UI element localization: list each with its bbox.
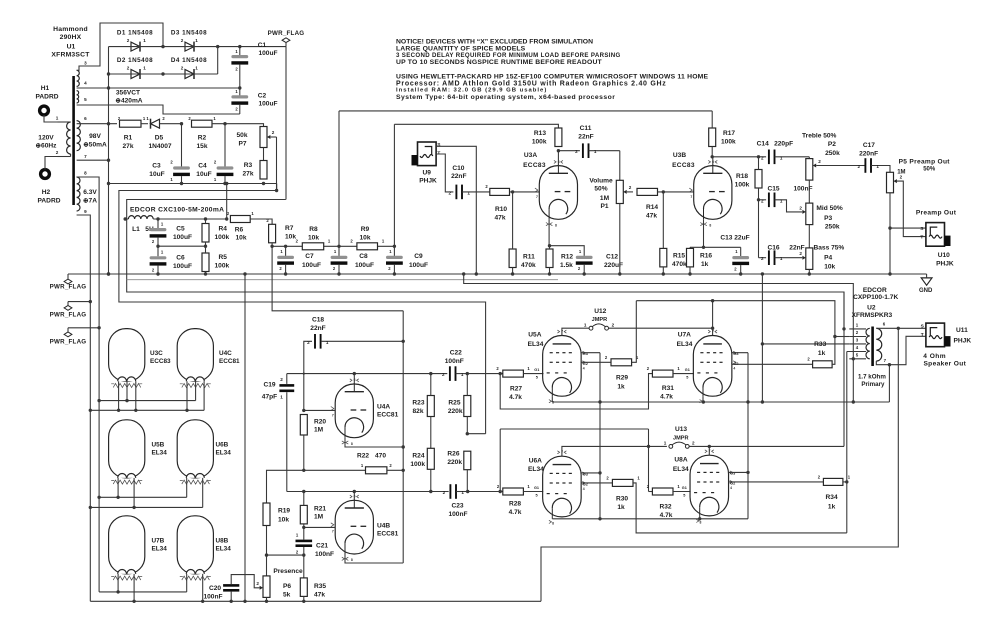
svg-text:R20: R20 — [314, 419, 326, 426]
wire U8A g3 tie — [729, 471, 749, 473]
svg-text:EL34: EL34 — [528, 466, 544, 473]
wire C23 row — [466, 490, 503, 493]
svg-text:2: 2 — [692, 441, 695, 446]
svg-text:100uF: 100uF — [355, 262, 374, 269]
svg-text:C18: C18 — [312, 317, 324, 324]
svg-text:C5: C5 — [176, 226, 185, 233]
svg-text:G3: G3 — [733, 352, 738, 356]
wire U4B plate row — [287, 490, 449, 493]
svg-text:U10: U10 — [938, 252, 950, 259]
wire U7A plate — [711, 299, 714, 336]
wire U3A cathode — [548, 219, 551, 247]
tube U4B — [331, 495, 399, 563]
svg-text:1: 1 — [461, 372, 464, 377]
wire U4B plate — [353, 492, 355, 501]
wire heater bus row3b — [134, 574, 204, 603]
transformer U1 6.3V winding — [77, 171, 88, 214]
svg-text:D2 1N5408: D2 1N5408 — [117, 57, 153, 64]
text system info block — [396, 73, 709, 101]
svg-text:98V: 98V — [89, 133, 101, 140]
svg-text:2: 2 — [56, 150, 59, 155]
svg-text:Installed RAM: 32.0 GB (29.9 G: Installed RAM: 32.0 GB (29.9 GB usable) — [396, 88, 547, 94]
svg-text:2: 2 — [442, 372, 445, 377]
svg-text:Processor: AMD Athlon Gold 315: Processor: AMD Athlon Gold 3150U with Ra… — [396, 80, 667, 87]
wire R14 to U3B grid — [658, 190, 694, 193]
svg-text:4: 4 — [583, 366, 585, 370]
svg-text:2: 2 — [272, 130, 275, 135]
label 98V 50mA — [83, 133, 107, 149]
svg-text:Preamp Out: Preamp Out — [916, 210, 957, 217]
wire P7 wiper feed — [275, 137, 278, 192]
wire splitter top link — [272, 246, 403, 310]
wire cathode ground bus — [462, 272, 855, 402]
svg-text:4: 4 — [730, 486, 732, 490]
wire cathode rail upper — [552, 400, 889, 403]
svg-text:R7: R7 — [285, 225, 294, 232]
wire U3A plate — [557, 149, 560, 166]
svg-text:22nF: 22nF — [310, 325, 325, 332]
svg-text:U3A: U3A — [524, 152, 537, 159]
tube U5A — [528, 330, 588, 405]
power flag 2 — [50, 300, 92, 319]
svg-text:4.7k: 4.7k — [660, 512, 673, 519]
wire U9 sleeve to ground — [436, 146, 476, 274]
wire R28 to U6A grid — [523, 486, 543, 498]
svg-text:U7B: U7B — [152, 537, 165, 544]
svg-text:2: 2 — [900, 175, 903, 180]
transformer U1 secondary 3-4 winding — [77, 61, 88, 87]
tube U4A — [331, 378, 399, 446]
svg-text:C14: C14 — [757, 141, 769, 148]
svg-text:7: 7 — [561, 450, 563, 454]
svg-text:22nF: 22nF — [789, 244, 804, 251]
wire C10 to R10 — [462, 191, 490, 193]
svg-text:H2: H2 — [42, 189, 51, 196]
wire R27 to U5A grid — [523, 368, 543, 380]
wire heater column B — [77, 215, 92, 601]
resistor R1 — [118, 116, 146, 150]
svg-text:R12: R12 — [561, 254, 573, 261]
svg-text:5: 5 — [683, 494, 685, 498]
wire OT secondary pin7 — [876, 358, 891, 402]
svg-text:C8: C8 — [359, 253, 368, 260]
svg-text:100uF: 100uF — [258, 50, 277, 57]
svg-text:27k: 27k — [122, 143, 133, 150]
wire U6A plate — [562, 446, 667, 456]
resistor R8 — [296, 226, 331, 250]
svg-text:470k: 470k — [521, 262, 536, 269]
svg-text:10k: 10k — [235, 235, 246, 242]
svg-text:R24: R24 — [412, 453, 424, 460]
svg-text:2: 2 — [256, 581, 259, 586]
wire B+ drop to C8 — [338, 111, 340, 246]
svg-text:USING HEWLETT-PACKARD HP 15Z-E: USING HEWLETT-PACKARD HP 15Z-EF100 COMPU… — [396, 73, 709, 80]
wire U5A cathode — [551, 396, 553, 402]
capacitor C23 — [443, 484, 468, 518]
svg-text:JMPR: JMPR — [673, 436, 689, 442]
svg-text:R33: R33 — [814, 341, 826, 348]
svg-text:8: 8 — [552, 521, 554, 525]
capacitor C22 — [442, 350, 469, 381]
svg-text:PHJK: PHJK — [954, 337, 972, 344]
tube U6A — [528, 450, 588, 525]
svg-text:4.7k: 4.7k — [660, 394, 673, 401]
wire L1 output rail — [153, 217, 227, 220]
svg-text:PADRD: PADRD — [38, 198, 61, 205]
svg-text:2: 2 — [761, 155, 764, 160]
svg-text:100uF: 100uF — [173, 263, 192, 270]
svg-text:5: 5 — [686, 376, 688, 380]
potentiometer P6 — [256, 576, 291, 601]
svg-text:H1: H1 — [41, 85, 50, 92]
svg-text:PWR_FLAG: PWR_FLAG — [50, 284, 87, 291]
svg-text:10uF: 10uF — [196, 171, 211, 178]
svg-text:D5: D5 — [155, 135, 164, 142]
resistor R24 — [410, 448, 434, 491]
resistor R2 — [188, 116, 216, 150]
resistor R3 — [242, 161, 267, 180]
svg-text:R18: R18 — [736, 173, 748, 180]
diode D4 — [171, 57, 207, 79]
wire U5A g3 column — [581, 353, 602, 519]
svg-text:1M: 1M — [314, 514, 324, 521]
svg-text:C9: C9 — [414, 253, 423, 260]
capacitor C16 — [759, 244, 805, 265]
svg-text:1k: 1k — [828, 504, 836, 511]
svg-text:7: 7 — [332, 413, 334, 417]
capacitor C19 — [262, 374, 294, 492]
potentiometer P5 — [887, 158, 951, 236]
svg-text:5k: 5k — [283, 592, 291, 599]
wire C16 column — [758, 200, 760, 258]
label Presence — [273, 568, 303, 575]
svg-text:T: T — [920, 234, 923, 240]
wire flag column to box — [285, 47, 287, 200]
svg-text:1.7 kOhm: 1.7 kOhm — [858, 373, 886, 380]
svg-text:100k: 100k — [215, 263, 230, 270]
svg-text:C12: C12 — [606, 254, 618, 261]
svg-text:T: T — [437, 150, 440, 156]
capacitor C20 — [203, 575, 259, 603]
svg-text:ECC81: ECC81 — [219, 358, 240, 365]
wire plate line to OT pin2 — [636, 301, 835, 337]
svg-text:3 SECOND DELAY REQUIRED FOR MI: 3 SECOND DELAY REQUIRED FOR MINIMUM LOAD… — [396, 52, 621, 59]
jumper U12 — [584, 308, 615, 330]
svg-text:Hammond: Hammond — [53, 26, 88, 33]
svg-text:⊕50mA: ⊕50mA — [83, 142, 107, 149]
svg-text:9: 9 — [84, 209, 87, 214]
svg-text:100nF: 100nF — [203, 593, 222, 600]
svg-text:C10: C10 — [452, 165, 464, 172]
wire ground rail 183 — [109, 182, 277, 185]
svg-text:P3: P3 — [824, 215, 832, 222]
label 356VCT 420mA — [115, 90, 142, 105]
svg-text:D3 1N5408: D3 1N5408 — [171, 30, 207, 37]
tube U3A — [523, 152, 577, 228]
svg-text:R5: R5 — [219, 254, 228, 261]
svg-text:Primary: Primary — [861, 381, 885, 388]
svg-text:NOTICE! DEVICES WITH “X” EXCLU: NOTICE! DEVICES WITH “X” EXCLUDED FROM S… — [396, 39, 593, 46]
svg-text:5: 5 — [84, 97, 87, 102]
svg-text:22nF: 22nF — [451, 173, 466, 180]
wire grid-plate link row — [500, 428, 648, 430]
svg-text:1k: 1k — [617, 504, 625, 511]
svg-text:5: 5 — [536, 376, 538, 380]
svg-text:R15: R15 — [673, 253, 685, 260]
svg-text:Speaker Out: Speaker Out — [923, 361, 966, 368]
svg-text:C22: C22 — [450, 350, 462, 357]
svg-text:System Type: 64-bit operating: System Type: 64-bit operating system, x6… — [396, 94, 615, 101]
transformer U1 secondary 4-5 winding — [77, 91, 88, 103]
wire R32 feed column — [647, 429, 650, 492]
svg-text:Bass 75%: Bass 75% — [814, 244, 845, 251]
svg-text:2: 2 — [449, 190, 452, 195]
wire U7A g3 column — [732, 353, 750, 519]
wire U13 to U8A plate — [689, 445, 711, 456]
wire U7A cathode — [702, 396, 704, 402]
wire cathode node — [690, 246, 741, 249]
capacitor C8 — [331, 246, 374, 274]
svg-text:R30: R30 — [616, 495, 628, 502]
svg-text:R16: R16 — [700, 253, 712, 260]
resistor R22 — [357, 453, 392, 474]
wire heater bus row2a — [99, 478, 187, 499]
wire R31 to U7A grid — [673, 368, 694, 380]
svg-text:470k: 470k — [672, 261, 687, 268]
svg-text:C23: C23 — [451, 502, 463, 509]
wire B+ rail top — [339, 110, 712, 112]
tube U4C heater — [177, 329, 240, 388]
svg-text:2: 2 — [181, 65, 184, 70]
svg-text:6: 6 — [84, 116, 87, 121]
svg-text:R19: R19 — [278, 508, 290, 515]
diode D5 — [141, 116, 182, 150]
svg-text:Volume: Volume — [589, 177, 613, 184]
svg-text:PADRD: PADRD — [36, 94, 59, 101]
svg-text:2: 2 — [127, 38, 130, 43]
tube U3B — [672, 152, 732, 228]
tube U7A — [677, 330, 739, 405]
power flag 3 — [50, 326, 101, 345]
capacitor C12 — [550, 246, 624, 274]
wire heater column A — [77, 177, 101, 592]
svg-text:R28: R28 — [509, 501, 521, 508]
jack U9 — [412, 142, 442, 185]
svg-text:D4 1N5408: D4 1N5408 — [171, 57, 207, 64]
svg-text:8: 8 — [555, 224, 557, 228]
wire NFB riser — [541, 328, 898, 601]
svg-text:1: 1 — [280, 394, 283, 399]
svg-text:R22: R22 — [357, 453, 369, 460]
svg-text:100uF: 100uF — [409, 262, 428, 269]
power flag 1 — [50, 274, 87, 291]
svg-text:⊕7A: ⊕7A — [83, 198, 97, 205]
diode D2 — [117, 57, 153, 79]
svg-text:100k: 100k — [721, 139, 736, 146]
svg-text:C13 22uF: C13 22uF — [720, 235, 749, 242]
svg-text:100k: 100k — [215, 234, 230, 241]
svg-text:UP TO 10 SECONDS NGSPICE RUNTI: UP TO 10 SECONDS NGSPICE RUNTIME BEFORE … — [396, 59, 603, 66]
power flag top — [268, 30, 305, 46]
svg-text:100nF: 100nF — [315, 551, 334, 558]
wire H2 to primary — [45, 157, 58, 170]
transformer U2 secondary — [876, 328, 881, 361]
svg-text:PWR_FLAG: PWR_FLAG — [50, 339, 87, 346]
svg-text:R13: R13 — [534, 130, 546, 137]
transformer U1 labels — [51, 26, 90, 59]
svg-text:G1: G1 — [534, 486, 539, 490]
wire PS box bottom edge — [127, 279, 558, 281]
svg-text:2: 2 — [799, 205, 802, 210]
svg-text:2: 2 — [280, 377, 283, 382]
svg-text:47k: 47k — [646, 212, 657, 219]
svg-text:8: 8 — [700, 520, 702, 524]
svg-text:47k: 47k — [314, 592, 325, 599]
wire R25 jog — [466, 432, 486, 435]
svg-text:2: 2 — [443, 490, 446, 495]
svg-text:U13: U13 — [675, 426, 687, 433]
capacitor C14 — [757, 141, 810, 165]
svg-text:27k: 27k — [242, 171, 253, 178]
wire C22 to R27 row — [467, 373, 503, 375]
svg-text:L1: L1 — [132, 226, 140, 233]
svg-text:10k: 10k — [824, 264, 835, 271]
wire OT secondary pin6 — [876, 321, 926, 330]
jack U10 — [916, 210, 957, 268]
svg-text:10uF: 10uF — [149, 171, 164, 178]
resistor R35 — [300, 578, 326, 601]
capacitor C10 — [449, 165, 471, 199]
svg-text:100k: 100k — [410, 461, 425, 468]
wire output cathode row — [552, 517, 748, 520]
svg-text:1: 1 — [584, 322, 587, 327]
wire main ground rail — [68, 272, 927, 275]
label EDCOR choke — [130, 207, 224, 214]
wire U10 sleeve — [890, 227, 926, 229]
svg-text:EDCOR CXC100-5M-200mA: EDCOR CXC100-5M-200mA — [130, 207, 224, 214]
wire PS mid rail — [156, 245, 207, 248]
potentiometer P7 — [236, 127, 276, 161]
svg-text:JMPR: JMPR — [592, 317, 608, 323]
svg-text:2: 2 — [761, 198, 764, 203]
svg-text:7: 7 — [712, 330, 714, 334]
svg-text:EL34: EL34 — [528, 341, 544, 348]
capacitor C17 — [858, 142, 890, 173]
tube U8A — [673, 449, 735, 524]
svg-text:R17: R17 — [723, 130, 735, 137]
wire B+ screen line — [119, 191, 486, 434]
wire pin6 row — [77, 123, 117, 125]
svg-text:1.5k: 1.5k — [560, 262, 573, 269]
svg-text:10k: 10k — [285, 234, 296, 241]
transformer U2 core — [871, 327, 874, 367]
wire U3B cathode — [703, 219, 705, 247]
svg-text:4: 4 — [733, 366, 735, 370]
svg-text:P5 Preamp Out: P5 Preamp Out — [899, 158, 951, 165]
transformer U1 98V winding — [77, 116, 88, 159]
transformer U2 primary — [866, 328, 870, 359]
resistor R26 — [447, 450, 470, 491]
transformer U2 pin stubs — [847, 322, 866, 358]
svg-text:82k: 82k — [412, 408, 423, 415]
svg-text:4 Ohm: 4 Ohm — [923, 353, 946, 360]
text notice block — [396, 39, 621, 67]
wire PS box outline — [127, 200, 844, 329]
svg-text:R10: R10 — [495, 206, 507, 213]
svg-text:CXPP100-1.7K: CXPP100-1.7K — [853, 294, 898, 301]
svg-text:ECC83: ECC83 — [523, 162, 546, 169]
wire U7A grid feed — [499, 372, 653, 409]
svg-text:C4: C4 — [198, 163, 207, 170]
wire OT pin2 node — [835, 336, 849, 338]
svg-text:3: 3 — [84, 61, 87, 66]
wire R29 riser — [632, 301, 637, 363]
wire heater bus row1a — [99, 381, 196, 402]
resistor R15 — [660, 192, 687, 274]
svg-text:1N4007: 1N4007 — [148, 143, 171, 150]
svg-text:PHJK: PHJK — [936, 261, 954, 268]
label 6.3V 7A — [83, 189, 97, 205]
wire C15 row — [757, 198, 766, 201]
svg-text:R23: R23 — [412, 400, 424, 407]
svg-text:1: 1 — [461, 490, 464, 495]
wire R22 right node — [387, 469, 405, 472]
wire P5 bottom — [888, 193, 891, 274]
capacitor C9 — [386, 246, 428, 274]
wire pin5 — [77, 105, 240, 114]
svg-text:R6: R6 — [235, 227, 244, 234]
wire U5A screen row — [581, 361, 611, 363]
svg-text:R2: R2 — [198, 135, 207, 142]
wire bridge left column — [107, 47, 110, 276]
svg-text:8: 8 — [709, 224, 711, 228]
svg-text:C21: C21 — [316, 543, 328, 550]
wire R13 feed — [394, 124, 558, 128]
svg-text:GND: GND — [919, 288, 933, 294]
svg-text:1: 1 — [780, 155, 783, 160]
wire H1 to primary — [44, 115, 58, 122]
svg-text:50%: 50% — [923, 166, 936, 172]
svg-text:1: 1 — [326, 340, 329, 345]
svg-text:P6: P6 — [283, 583, 291, 590]
svg-text:PWR_FLAG: PWR_FLAG — [268, 30, 305, 37]
svg-text:U1: U1 — [67, 44, 76, 51]
svg-text:100k: 100k — [532, 139, 547, 146]
svg-text:4: 4 — [583, 487, 585, 491]
svg-text:U2: U2 — [867, 304, 876, 311]
resistor R19 — [263, 503, 290, 576]
resistor R34 — [818, 474, 851, 510]
node C3 top — [180, 122, 183, 125]
svg-text:EL34: EL34 — [673, 466, 689, 473]
svg-text:100uF: 100uF — [258, 101, 277, 108]
svg-text:1: 1 — [876, 164, 879, 169]
svg-text:7: 7 — [84, 154, 87, 159]
svg-text:220pF: 220pF — [774, 141, 793, 148]
svg-text:C15: C15 — [767, 185, 779, 192]
svg-text:100k: 100k — [735, 182, 750, 189]
resistor R9 — [350, 226, 385, 250]
svg-text:1: 1 — [195, 65, 198, 70]
tube U6B heater — [177, 420, 231, 484]
svg-text:U7A: U7A — [678, 332, 691, 339]
svg-text:100nF: 100nF — [445, 358, 464, 365]
jumper U13 — [664, 426, 695, 449]
svg-text:R8: R8 — [309, 226, 318, 233]
svg-text:356VCT: 356VCT — [116, 90, 140, 97]
svg-text:C6: C6 — [176, 255, 185, 262]
svg-text:EL34: EL34 — [216, 449, 232, 456]
